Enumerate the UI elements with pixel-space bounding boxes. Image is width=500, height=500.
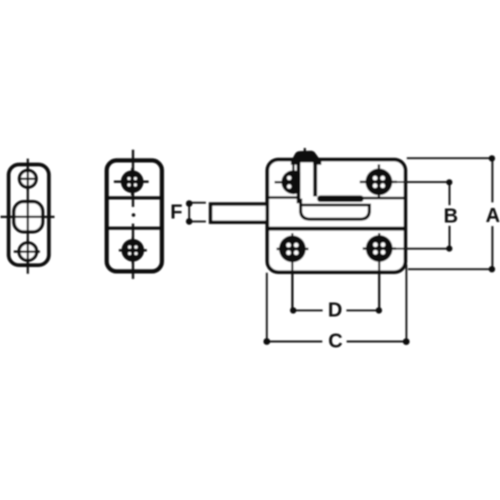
svg-text:C: C	[328, 331, 342, 353]
svg-text:B: B	[444, 205, 458, 227]
svg-text:A: A	[486, 205, 500, 227]
svg-text:F: F	[170, 201, 182, 223]
svg-text:D: D	[328, 300, 342, 322]
